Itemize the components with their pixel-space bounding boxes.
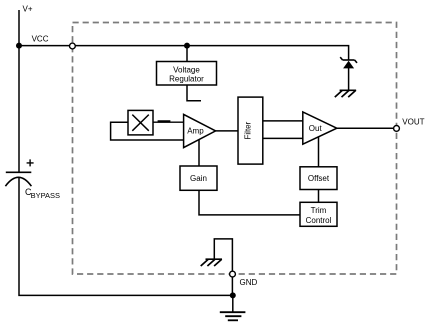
svg-text:Amp: Amp (187, 127, 204, 136)
svg-text:BYPASS: BYPASS (31, 191, 60, 200)
svg-text:V+: V+ (23, 5, 33, 14)
svg-text:VCC: VCC (32, 35, 49, 44)
svg-text:Control: Control (306, 216, 332, 225)
svg-text:Voltage: Voltage (173, 65, 200, 74)
svg-text:Trim: Trim (311, 206, 327, 215)
svg-text:Gain: Gain (190, 174, 207, 183)
svg-text:Out: Out (309, 124, 323, 133)
svg-text:VOUT: VOUT (402, 117, 424, 126)
svg-text:Regulator: Regulator (169, 75, 204, 84)
svg-text:Offset: Offset (308, 174, 330, 183)
svg-text:Filter: Filter (243, 121, 252, 139)
svg-text:GND: GND (240, 278, 258, 287)
